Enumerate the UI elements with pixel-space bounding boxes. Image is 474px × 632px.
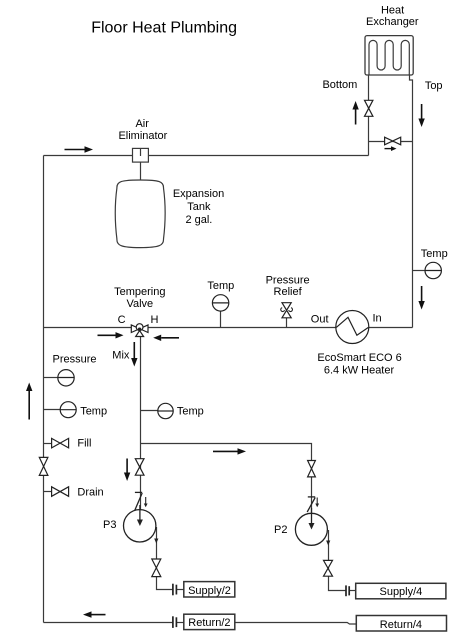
pipe: left main riser xyxy=(43,156,45,623)
pipe: top supply line xyxy=(44,155,369,157)
svg-text:Top: Top xyxy=(425,80,443,92)
pipe: P3 outlet xyxy=(157,527,173,590)
union: Return/2 xyxy=(173,616,177,628)
valve: P3 outlet isolation xyxy=(152,559,161,577)
arrow: right on top supply line xyxy=(65,146,94,152)
svg-text:Temp: Temp xyxy=(421,248,448,260)
svg-text:Return/4: Return/4 xyxy=(380,619,422,631)
label: Expansion Tank 2 gal. xyxy=(173,188,224,226)
label: Air Eliminator xyxy=(118,118,167,142)
arrow: right into tempering valve C port xyxy=(98,332,124,338)
svg-text:6.4 kW Heater: 6.4 kW Heater xyxy=(324,364,395,376)
valve: fill xyxy=(44,438,69,448)
arrow: down from tempering valve (mix) xyxy=(131,342,137,367)
union: Supply/4 xyxy=(346,585,349,596)
arrow: up beside bottom drop xyxy=(352,101,358,125)
label: Heat Exchanger xyxy=(366,4,419,27)
arrow: down on right riser xyxy=(418,286,424,310)
pipe: return line left xyxy=(44,622,173,624)
svg-text:2 gal.: 2 gal. xyxy=(185,214,212,226)
svg-text:Supply/4: Supply/4 xyxy=(379,586,422,598)
svg-text:EcoSmart ECO 6: EcoSmart ECO 6 xyxy=(317,352,401,364)
pipe: bypass line xyxy=(369,141,413,143)
pressure relief valve xyxy=(281,303,293,328)
svg-text:In: In xyxy=(373,313,382,325)
expansion tank xyxy=(115,180,165,248)
arrow: down beside mix valve xyxy=(124,459,130,482)
svg-text:Valve: Valve xyxy=(126,298,153,310)
tempering valve (3-way) xyxy=(131,324,148,337)
pipe: P2 outlet to Supply/4 xyxy=(349,590,355,592)
gauge: temp on main line xyxy=(212,295,228,328)
heat exchanger U1 xyxy=(365,36,413,75)
svg-text:Tank: Tank xyxy=(187,201,211,213)
valve: drain xyxy=(44,487,69,497)
pipe: return union to Return/2 xyxy=(177,622,184,624)
pump P2 xyxy=(295,513,327,545)
svg-text:C: C xyxy=(118,314,126,326)
union: Supply/2 xyxy=(173,584,177,596)
pump P2 outlet arrow xyxy=(326,541,330,546)
svg-text:Tempering: Tempering xyxy=(114,286,165,298)
arrow: left on return line xyxy=(83,611,106,617)
svg-text:Out: Out xyxy=(311,313,329,325)
gauge: temp on left riser xyxy=(44,402,77,418)
valve: P2 line isolation xyxy=(308,461,316,477)
svg-text:Temp: Temp xyxy=(177,405,204,417)
air eliminator xyxy=(133,148,149,162)
svg-text:Eliminator: Eliminator xyxy=(118,130,167,142)
pipe: heat exchanger bottom drop xyxy=(368,75,370,156)
pump P2 inlet arrow xyxy=(309,508,315,530)
pipe: main hot water line xyxy=(44,327,413,329)
svg-text:Supply/2: Supply/2 xyxy=(188,585,231,597)
arrow: down beside top drop xyxy=(418,104,424,127)
svg-text:Heat: Heat xyxy=(381,4,404,16)
svg-text:Pressure: Pressure xyxy=(53,353,97,365)
box: Return/2 xyxy=(184,614,235,629)
pump P3 inlet arrow xyxy=(137,505,143,526)
svg-text:H: H xyxy=(151,314,159,326)
label: EcoSmart ECO 6 / 6.4 kW Heater xyxy=(317,352,401,376)
pump P3 xyxy=(124,510,156,542)
svg-text:Drain: Drain xyxy=(77,486,103,498)
check valve: P2 inlet xyxy=(307,497,319,512)
valve: heat exchanger bottom isolation xyxy=(365,100,373,116)
pipe: mix drop line xyxy=(140,337,142,511)
valve: bypass xyxy=(385,137,401,145)
box: Return/4 xyxy=(356,616,446,632)
box: Supply/4 xyxy=(356,583,446,599)
arrow: right on branch to P2 xyxy=(213,448,246,454)
svg-text:Exchanger: Exchanger xyxy=(366,16,419,28)
pipe: P3 outlet to Supply/2 xyxy=(177,589,184,591)
svg-text:Expansion: Expansion xyxy=(173,188,224,200)
svg-text:Bottom: Bottom xyxy=(322,79,357,91)
pipe: Return/2 to Return/4 xyxy=(235,623,356,625)
gauge: temp on right riser xyxy=(413,262,442,278)
svg-text:Return/2: Return/2 xyxy=(188,617,230,629)
pipe: air eliminator stem xyxy=(140,162,142,180)
heater circle U2 xyxy=(336,311,369,344)
gauge: pressure on left riser xyxy=(44,370,75,386)
svg-text:Temp: Temp xyxy=(207,280,234,292)
pipe: heat exchanger top drop xyxy=(410,75,413,328)
svg-text:Air: Air xyxy=(135,118,149,130)
arrow: left into tempering valve H port xyxy=(153,335,179,341)
svg-text:Temp: Temp xyxy=(80,405,107,417)
gauge: temp on mix line xyxy=(141,403,174,418)
svg-text:Mix: Mix xyxy=(112,349,130,361)
svg-text:Fill: Fill xyxy=(77,438,91,450)
box: Supply/2 xyxy=(184,582,235,597)
label: Pressure Relief xyxy=(266,274,310,298)
label: Tempering Valve xyxy=(114,286,165,310)
valve: P2 outlet isolation xyxy=(324,560,333,576)
svg-text:Pressure: Pressure xyxy=(266,274,310,286)
svg-text:P2: P2 xyxy=(274,524,287,536)
check valve: P3 inlet xyxy=(134,492,147,511)
arrow: up on left riser xyxy=(26,383,32,420)
pipe: P2 outlet xyxy=(329,530,346,591)
pump P3 outlet arrow xyxy=(154,539,158,544)
valve: left riser isolation xyxy=(39,457,48,475)
pipe: branch to P2 xyxy=(141,444,312,515)
svg-text:Floor Heat Plumbing: Floor Heat Plumbing xyxy=(91,19,237,36)
svg-text:Relief: Relief xyxy=(274,286,303,298)
valve: mix line isolation xyxy=(135,459,144,476)
arrow: small right under bypass valve xyxy=(385,146,397,151)
svg-text:P3: P3 xyxy=(103,519,116,531)
